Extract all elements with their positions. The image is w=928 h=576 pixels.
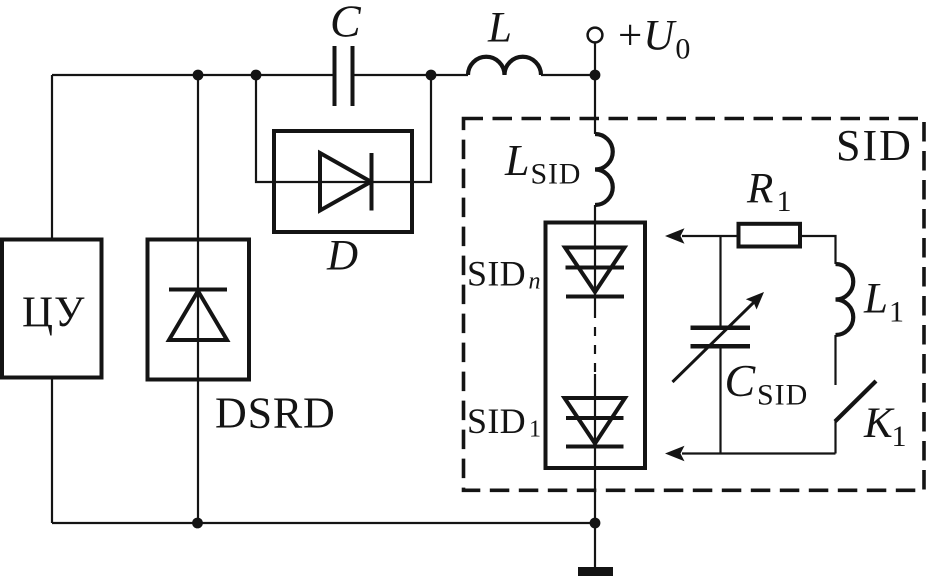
wire dotted between SID diodes bbox=[594, 318, 596, 374]
terminal +U0 circle bbox=[588, 28, 603, 43]
wire switch to bottom arrow line bbox=[834, 420, 836, 454]
svg-text:L: L bbox=[863, 276, 888, 323]
inductor L1 bbox=[836, 264, 854, 335]
wire D-branch down-across-up (256,75)-(256,182)-(431,182)-(431,75) bbox=[256, 75, 431, 182]
svg-text:C: C bbox=[330, 0, 362, 47]
block CU box bbox=[2, 240, 102, 378]
node junction (198,75) bbox=[193, 70, 204, 81]
block SID stack box bbox=[546, 223, 646, 469]
wire C_SID branch lower bbox=[719, 349, 721, 454]
diode D cathode bar bbox=[370, 153, 374, 211]
wire bottom tap line bbox=[682, 452, 836, 454]
diode SID_1 cathode bar bbox=[566, 445, 624, 449]
wire top bus y=75 bbox=[52, 74, 595, 76]
svg-text:n: n bbox=[529, 269, 541, 295]
switch K1 blade bbox=[835, 381, 876, 422]
node junction (197.5,523) bbox=[192, 518, 203, 529]
svg-text:SID: SID bbox=[531, 158, 582, 191]
arrow to SID_n tap bbox=[665, 228, 685, 244]
wire stack to bottom junction and ground bbox=[594, 374, 596, 567]
capacitor C_SID top plate bbox=[691, 325, 751, 330]
diode D triangle bbox=[320, 153, 371, 211]
svg-text:SID: SID bbox=[467, 401, 526, 441]
arrow to SID_1 tap bbox=[665, 446, 685, 462]
svg-text:L: L bbox=[504, 136, 529, 185]
ground symbol bbox=[578, 567, 613, 576]
diode DSRD cathode bar bbox=[169, 288, 227, 292]
wire terminal to top bus bbox=[594, 42, 596, 75]
wire left vertical from CU box to bottom bus bbox=[51, 377, 53, 523]
dashed SID box bbox=[464, 119, 925, 491]
node junction (431,75) bbox=[426, 70, 437, 81]
diode SID_n gate line bbox=[566, 266, 625, 270]
svg-text:D: D bbox=[326, 233, 358, 280]
capacitor C_SID bottom plate bbox=[691, 344, 751, 349]
wire R1 feed with arrow bbox=[682, 235, 737, 237]
svg-text:SID: SID bbox=[757, 379, 808, 412]
svg-text:ЦУ: ЦУ bbox=[22, 289, 86, 336]
capacitor C_SID variable arrow head bbox=[746, 292, 764, 310]
node junction (595,523) bbox=[590, 518, 601, 529]
wire bottom bus y=523 bbox=[52, 522, 595, 524]
node junction (256,75) bbox=[251, 70, 262, 81]
diode DSRD triangle bbox=[169, 291, 227, 340]
svg-text:1: 1 bbox=[777, 185, 792, 218]
svg-text:L: L bbox=[487, 5, 512, 52]
capacitor C plates bbox=[335, 46, 353, 106]
svg-text:+U0: +U0 bbox=[618, 13, 691, 66]
inductor L_SID bbox=[595, 134, 613, 205]
diode SID_n triangle with base bbox=[565, 248, 625, 293]
wire C_SID branch upper bbox=[719, 236, 721, 326]
wire terminal down to L_SID bbox=[594, 75, 596, 134]
wire DSRD vertical x=198 bbox=[197, 75, 199, 523]
svg-text:SID: SID bbox=[836, 121, 913, 170]
svg-text:DSRD: DSRD bbox=[215, 389, 336, 438]
capacitor C_SID variable arrow shaft bbox=[673, 300, 757, 382]
svg-text:K: K bbox=[863, 400, 895, 447]
block D box bbox=[274, 131, 412, 232]
node junction (595,75) bbox=[590, 70, 601, 81]
wire left vertical to CU box bbox=[51, 75, 53, 240]
wire L_SID to stack box bbox=[594, 205, 596, 318]
svg-text:SID: SID bbox=[467, 254, 526, 294]
diode SID_1 triangle with base bbox=[565, 398, 626, 444]
resistor R1 bbox=[739, 224, 801, 247]
diode SID_1 gate line bbox=[566, 416, 624, 420]
svg-text:R: R bbox=[746, 166, 773, 213]
block DSRD box bbox=[148, 240, 250, 380]
svg-text:1: 1 bbox=[529, 417, 541, 443]
wire L1 to switch bbox=[834, 335, 836, 385]
svg-text:1: 1 bbox=[889, 296, 904, 329]
svg-text:1: 1 bbox=[892, 420, 907, 453]
inductor L bbox=[468, 57, 541, 75]
wire resistor to L1 bbox=[800, 236, 836, 264]
svg-text:C: C bbox=[725, 355, 757, 406]
diode SID_n cathode bar bbox=[566, 295, 624, 299]
